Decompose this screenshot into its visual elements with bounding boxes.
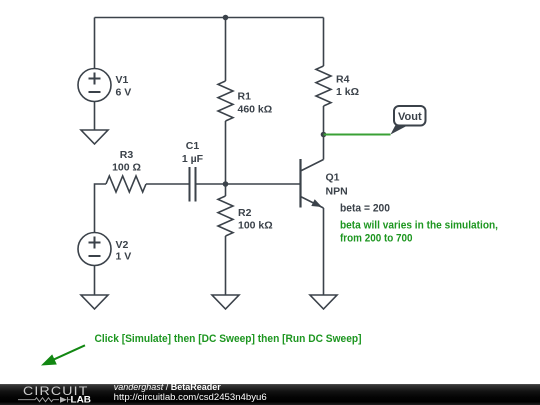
- junction dot collector node: [321, 132, 327, 138]
- wire R3 to C1: [146, 183, 190, 185]
- svg-text:1 µF: 1 µF: [182, 153, 204, 165]
- ground below Q1 emitter: [310, 295, 337, 309]
- capacitor C1: [190, 167, 196, 202]
- wire emitter down: [323, 208, 325, 295]
- svg-text:NPN: NPN: [326, 186, 348, 198]
- svg-text:100 Ω: 100 Ω: [112, 162, 141, 174]
- svg-text:Click [Simulate] then [DC Swee: Click [Simulate] then [DC Sweep] then [R…: [95, 333, 362, 345]
- svg-text:R4: R4: [336, 74, 350, 86]
- svg-text:460 kΩ: 460 kΩ: [238, 104, 273, 116]
- wire V1 bottom: [94, 102, 96, 131]
- svg-text:beta = 200: beta = 200: [340, 203, 390, 215]
- wire Vout (green net): [324, 134, 391, 136]
- svg-text:from 200 to 700: from 200 to 700: [340, 233, 413, 245]
- resistor R2: [218, 196, 233, 236]
- ground below R2: [212, 295, 239, 309]
- svg-text:V1: V1: [116, 74, 129, 86]
- svg-text:C1: C1: [186, 140, 200, 152]
- svg-text:Vout: Vout: [398, 111, 422, 123]
- CircuitLab logo: resistor-diode squiggle: [18, 397, 71, 402]
- wire C1 to node B: [196, 183, 226, 185]
- footer bar: [0, 384, 540, 405]
- wire R2 top: [225, 184, 227, 196]
- wire R3 left: [95, 184, 107, 233]
- node Vout flag: [391, 106, 426, 135]
- wire V2 bottom: [94, 266, 96, 296]
- svg-text:beta will varies in the simula: beta will varies in the simulation,: [340, 220, 498, 232]
- svg-text:V2: V2: [116, 239, 129, 251]
- wire collector: [323, 135, 325, 160]
- resistor R4: [316, 66, 331, 106]
- svg-text:vanderghast / BetaReader: vanderghast / BetaReader: [114, 382, 222, 392]
- svg-text:6 V: 6 V: [116, 87, 132, 99]
- transistor Q1: [301, 159, 324, 208]
- svg-text:R2: R2: [238, 207, 252, 219]
- wire R2 bottom: [225, 236, 227, 295]
- svg-text:1 kΩ: 1 kΩ: [336, 86, 359, 98]
- wire R1 bottom: [225, 121, 227, 184]
- voltage source V2: [78, 233, 111, 266]
- junction dot node B (base): [223, 181, 229, 187]
- svg-text:100 kΩ: 100 kΩ: [238, 220, 273, 232]
- wire V1 top: [94, 18, 96, 69]
- svg-text:http://circuitlab.com/csd2453n: http://circuitlab.com/csd2453n4byu6: [114, 392, 267, 402]
- svg-text:R1: R1: [238, 91, 252, 103]
- wire R1 top: [225, 18, 227, 82]
- ground below V1: [81, 130, 108, 144]
- svg-text:R3: R3: [120, 149, 134, 161]
- wire R4 top: [323, 18, 325, 67]
- CircuitLab logo: diode: [60, 397, 67, 403]
- annotation arrow: [41, 345, 85, 365]
- wire base: [226, 183, 300, 185]
- svg-text:Q1: Q1: [326, 172, 340, 184]
- resistor R3: [106, 176, 146, 192]
- svg-text:1 V: 1 V: [116, 251, 132, 263]
- svg-text:LAB: LAB: [71, 395, 92, 405]
- resistor R1: [218, 81, 233, 121]
- voltage source V1: [78, 69, 111, 102]
- wire top rail: [95, 17, 324, 19]
- ground below V2: [81, 295, 108, 309]
- junction dot top rail: [223, 15, 229, 21]
- wire R4 bottom: [323, 106, 325, 135]
